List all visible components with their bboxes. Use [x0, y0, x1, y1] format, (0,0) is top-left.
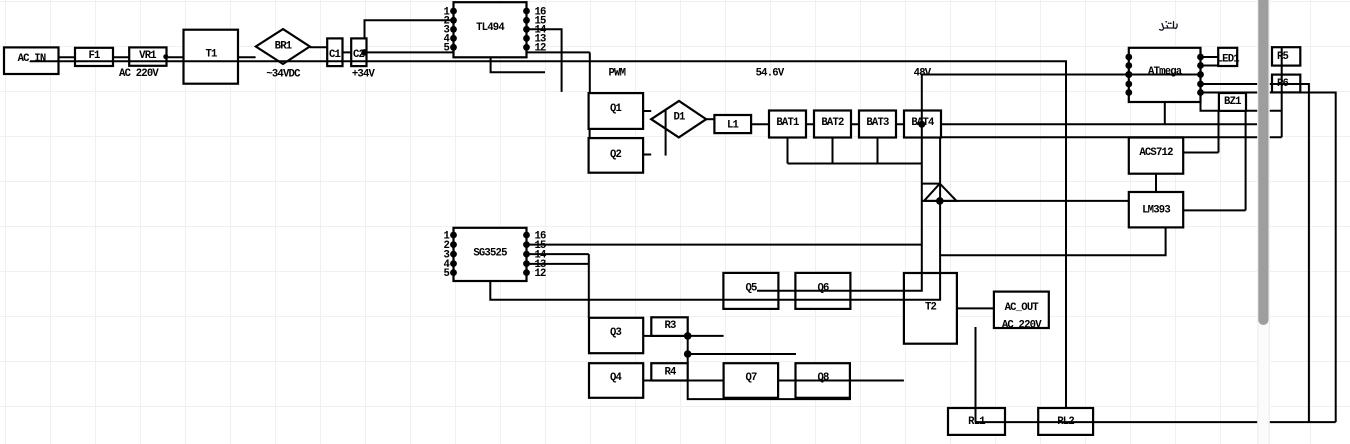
- wire relay output bus: [976, 421, 1336, 423]
- ATmega left pins: [1125, 54, 1132, 96]
- svg-text:ACS712: ACS712: [1139, 147, 1173, 159]
- MCU ATmega: [1129, 48, 1201, 102]
- wire Q1 output stub: [643, 110, 651, 112]
- wire 54.6V battery bus: [751, 123, 1257, 125]
- node R3 output: [684, 332, 692, 340]
- node shunt junction: [936, 197, 944, 205]
- diode D1: [651, 101, 706, 137]
- node BAT4 junction: [918, 121, 925, 128]
- wire ACS712 to LM393: [1155, 174, 1157, 192]
- wire ATmega bottom to battery bus: [1164, 102, 1166, 124]
- svg-text:Q8: Q8: [817, 372, 829, 384]
- wire SG3525 bottom to T2: [490, 138, 940, 300]
- svg-text:54.6V: 54.6V: [756, 68, 785, 80]
- wire AC_OUT drop to RL1: [975, 327, 977, 422]
- wire BZ1 right drop to LM393: [1245, 111, 1247, 210]
- wire Q1-Q2 left link: [589, 129, 591, 138]
- inductor L1: [714, 115, 751, 133]
- svg-text:R5: R5: [1277, 51, 1289, 63]
- wire PWM drop to Q1: [589, 52, 591, 93]
- wire node2 right: [688, 353, 796, 355]
- wire 48V rail (down from 48V corner, through BAT4, into T2, left into Q5): [757, 75, 1129, 291]
- svg-text:~34VDC: ~34VDC: [266, 69, 301, 81]
- ATmega right pins: [1197, 54, 1204, 96]
- wire D1 to L1: [706, 118, 714, 120]
- LED LED1: [1218, 48, 1237, 66]
- wire R3 node right: [688, 335, 724, 337]
- wire battery bottoms: [788, 138, 922, 164]
- wire AC bypass bus (lower mains rail to RL2): [30, 61, 1066, 408]
- wire ATmega pin4 to R6 drop: [1201, 84, 1309, 422]
- transistor Q6: [795, 273, 850, 309]
- svg-text:SG3525: SG3525: [473, 248, 507, 260]
- svg-text:AC_OUT: AC_OUT: [1005, 302, 1040, 314]
- svg-text:T1: T1: [205, 49, 217, 61]
- controller label (Arabic): [1160, 22, 1178, 31]
- node 48V at ATmega: [1125, 71, 1132, 78]
- wire SG3525 pin 15 to 48V rail: [527, 244, 922, 246]
- svg-text:5: 5: [443, 43, 449, 55]
- svg-text:T2: T2: [925, 302, 937, 314]
- transistor Q8: [796, 363, 850, 398]
- wire ATmega pin5 over BZ1 to drop: [1201, 93, 1336, 423]
- wire SG3525 pin 13 to Q3 drop: [527, 263, 589, 265]
- wire shunt apex link: [922, 183, 940, 185]
- wire LM393 right: [1183, 209, 1245, 211]
- wire +34V rail C1-C2 to Q1 drop: [334, 51, 590, 53]
- svg-text:ATmega: ATmega: [1148, 66, 1183, 78]
- wire TL494 bottom stub: [491, 57, 545, 72]
- wire bottom return loop: [688, 381, 850, 400]
- buzzer BZ1: [1219, 93, 1246, 111]
- node mid: [684, 350, 692, 358]
- block AC_OUT: [994, 292, 1049, 328]
- svg-text:Q2: Q2: [610, 149, 622, 161]
- svg-text:PWM: PWM: [608, 68, 625, 80]
- transistor Q5: [723, 273, 778, 309]
- resistor R4: [651, 363, 687, 380]
- wire ACS712 right: [1183, 152, 1218, 154]
- wire shunt to LM393: [922, 200, 1129, 202]
- wire SG3525 pin 14 to Q3 drop: [527, 253, 589, 255]
- capacitor C2: [351, 38, 366, 66]
- svg-text:AC_220V: AC_220V: [1002, 320, 1042, 332]
- wire drop to Q3: [588, 254, 590, 318]
- svg-text:Q3: Q3: [610, 327, 622, 339]
- svg-text:Q7: Q7: [745, 372, 757, 384]
- transistor Q3 + wires drawn below: [589, 317, 904, 399]
- wire ATmega to BZ1 bottom: [1201, 93, 1282, 111]
- wire through ATmega (48V sense): [1129, 74, 1201, 76]
- battery BAT2: [814, 111, 851, 138]
- scrollbar thumb: [1258, 0, 1268, 325]
- block AC_IN: [4, 47, 59, 74]
- resistor R6: [1272, 75, 1300, 93]
- TL494 left pins 1-5: [450, 8, 457, 51]
- svg-text:BAT3: BAT3: [866, 117, 889, 129]
- TL494 right pins 16-12: [523, 8, 530, 51]
- svg-text:5: 5: [443, 268, 449, 280]
- transistor Q2: [589, 138, 644, 173]
- svg-text:R4: R4: [664, 367, 677, 379]
- svg-text:AC 220V: AC 220V: [119, 68, 159, 80]
- SG3525 left pins 1-5: [450, 232, 457, 276]
- wire AC mains upper (AC_IN to F1 to VR1 to T1 to BR1): [59, 56, 256, 58]
- wire Q4 to R4: [643, 380, 651, 382]
- svg-text:12: 12: [535, 43, 547, 55]
- resistor R3: [651, 317, 687, 336]
- transformer T1: [184, 30, 239, 84]
- svg-text:R3: R3: [664, 320, 676, 332]
- transistor Q7: [724, 363, 779, 398]
- svg-text:Q6: Q6: [817, 283, 829, 295]
- svg-text:+34V: +34V: [352, 69, 376, 81]
- fuse F1: [75, 48, 113, 66]
- capacitor C1: [327, 38, 342, 66]
- wire TL494 pin 14 down: [527, 29, 562, 92]
- wire BZ1 left drop to ACS712: [1218, 111, 1220, 153]
- node after VR1: [163, 54, 168, 59]
- transformer T2: [904, 273, 957, 344]
- scrollbar track: [1257, 0, 1269, 444]
- svg-text:LED1: LED1: [1217, 54, 1240, 66]
- node +34V junction at C2: [361, 49, 368, 56]
- bridge rectifier BR1: [256, 29, 310, 64]
- transistor Q1: [589, 93, 644, 129]
- resistor R5: [1272, 47, 1300, 65]
- comparator LM393: [1129, 192, 1183, 227]
- current shunt triangle: [924, 184, 957, 201]
- transistor Q4: [589, 363, 643, 398]
- svg-text:BAT2: BAT2: [821, 117, 844, 129]
- svg-text:AC_IN: AC_IN: [18, 53, 46, 65]
- wire BR1 output to C1: [310, 46, 327, 48]
- transistor Q3: [589, 318, 643, 353]
- svg-text:Q1: Q1: [610, 103, 622, 115]
- svg-text:D1: D1: [673, 111, 685, 123]
- relay RL1: [948, 408, 1005, 435]
- wire ATmega to LED1 (2 pins): [1201, 57, 1219, 66]
- wire LM393 bottom loop: [940, 227, 1166, 255]
- wire 48V return bus (BAT4 bottom to R5/R6): [940, 136, 1282, 138]
- battery BAT1: [769, 111, 806, 138]
- wire C2 to TL494 pin 2: [365, 20, 454, 38]
- svg-text:BZ1: BZ1: [1224, 96, 1241, 108]
- wire vertical through D1: [665, 110, 667, 155]
- svg-text:TL494: TL494: [476, 22, 505, 34]
- SG3525 right pins 16-12: [523, 232, 530, 276]
- svg-text:BAT1: BAT1: [776, 117, 799, 129]
- IC SG3525: [454, 228, 527, 281]
- wire R5/R6 vertical: [1281, 48, 1283, 137]
- svg-text:C1: C1: [329, 49, 341, 61]
- wire Q3 to R3: [643, 335, 651, 337]
- wire R3 node down to R4: [687, 336, 689, 363]
- relay RL2: [1038, 408, 1093, 435]
- svg-text:BR1: BR1: [275, 41, 292, 53]
- svg-text:L1: L1: [727, 119, 739, 131]
- svg-text:Q4: Q4: [610, 372, 623, 384]
- svg-text:LM393: LM393: [1142, 204, 1170, 216]
- wire Q2 output stub: [643, 154, 651, 156]
- svg-text:Q5: Q5: [745, 283, 757, 295]
- wire gate drive row R4 to Q7 to Q8 to T2: [688, 380, 904, 382]
- current sensor ACS712: [1129, 138, 1183, 174]
- svg-text:12: 12: [535, 268, 547, 280]
- IC TL494: [454, 2, 527, 57]
- wire T2 to AC_OUT: [957, 307, 994, 309]
- battery BAT3: [859, 111, 896, 138]
- varistor VR1: [129, 47, 166, 65]
- battery BAT4: [904, 111, 941, 138]
